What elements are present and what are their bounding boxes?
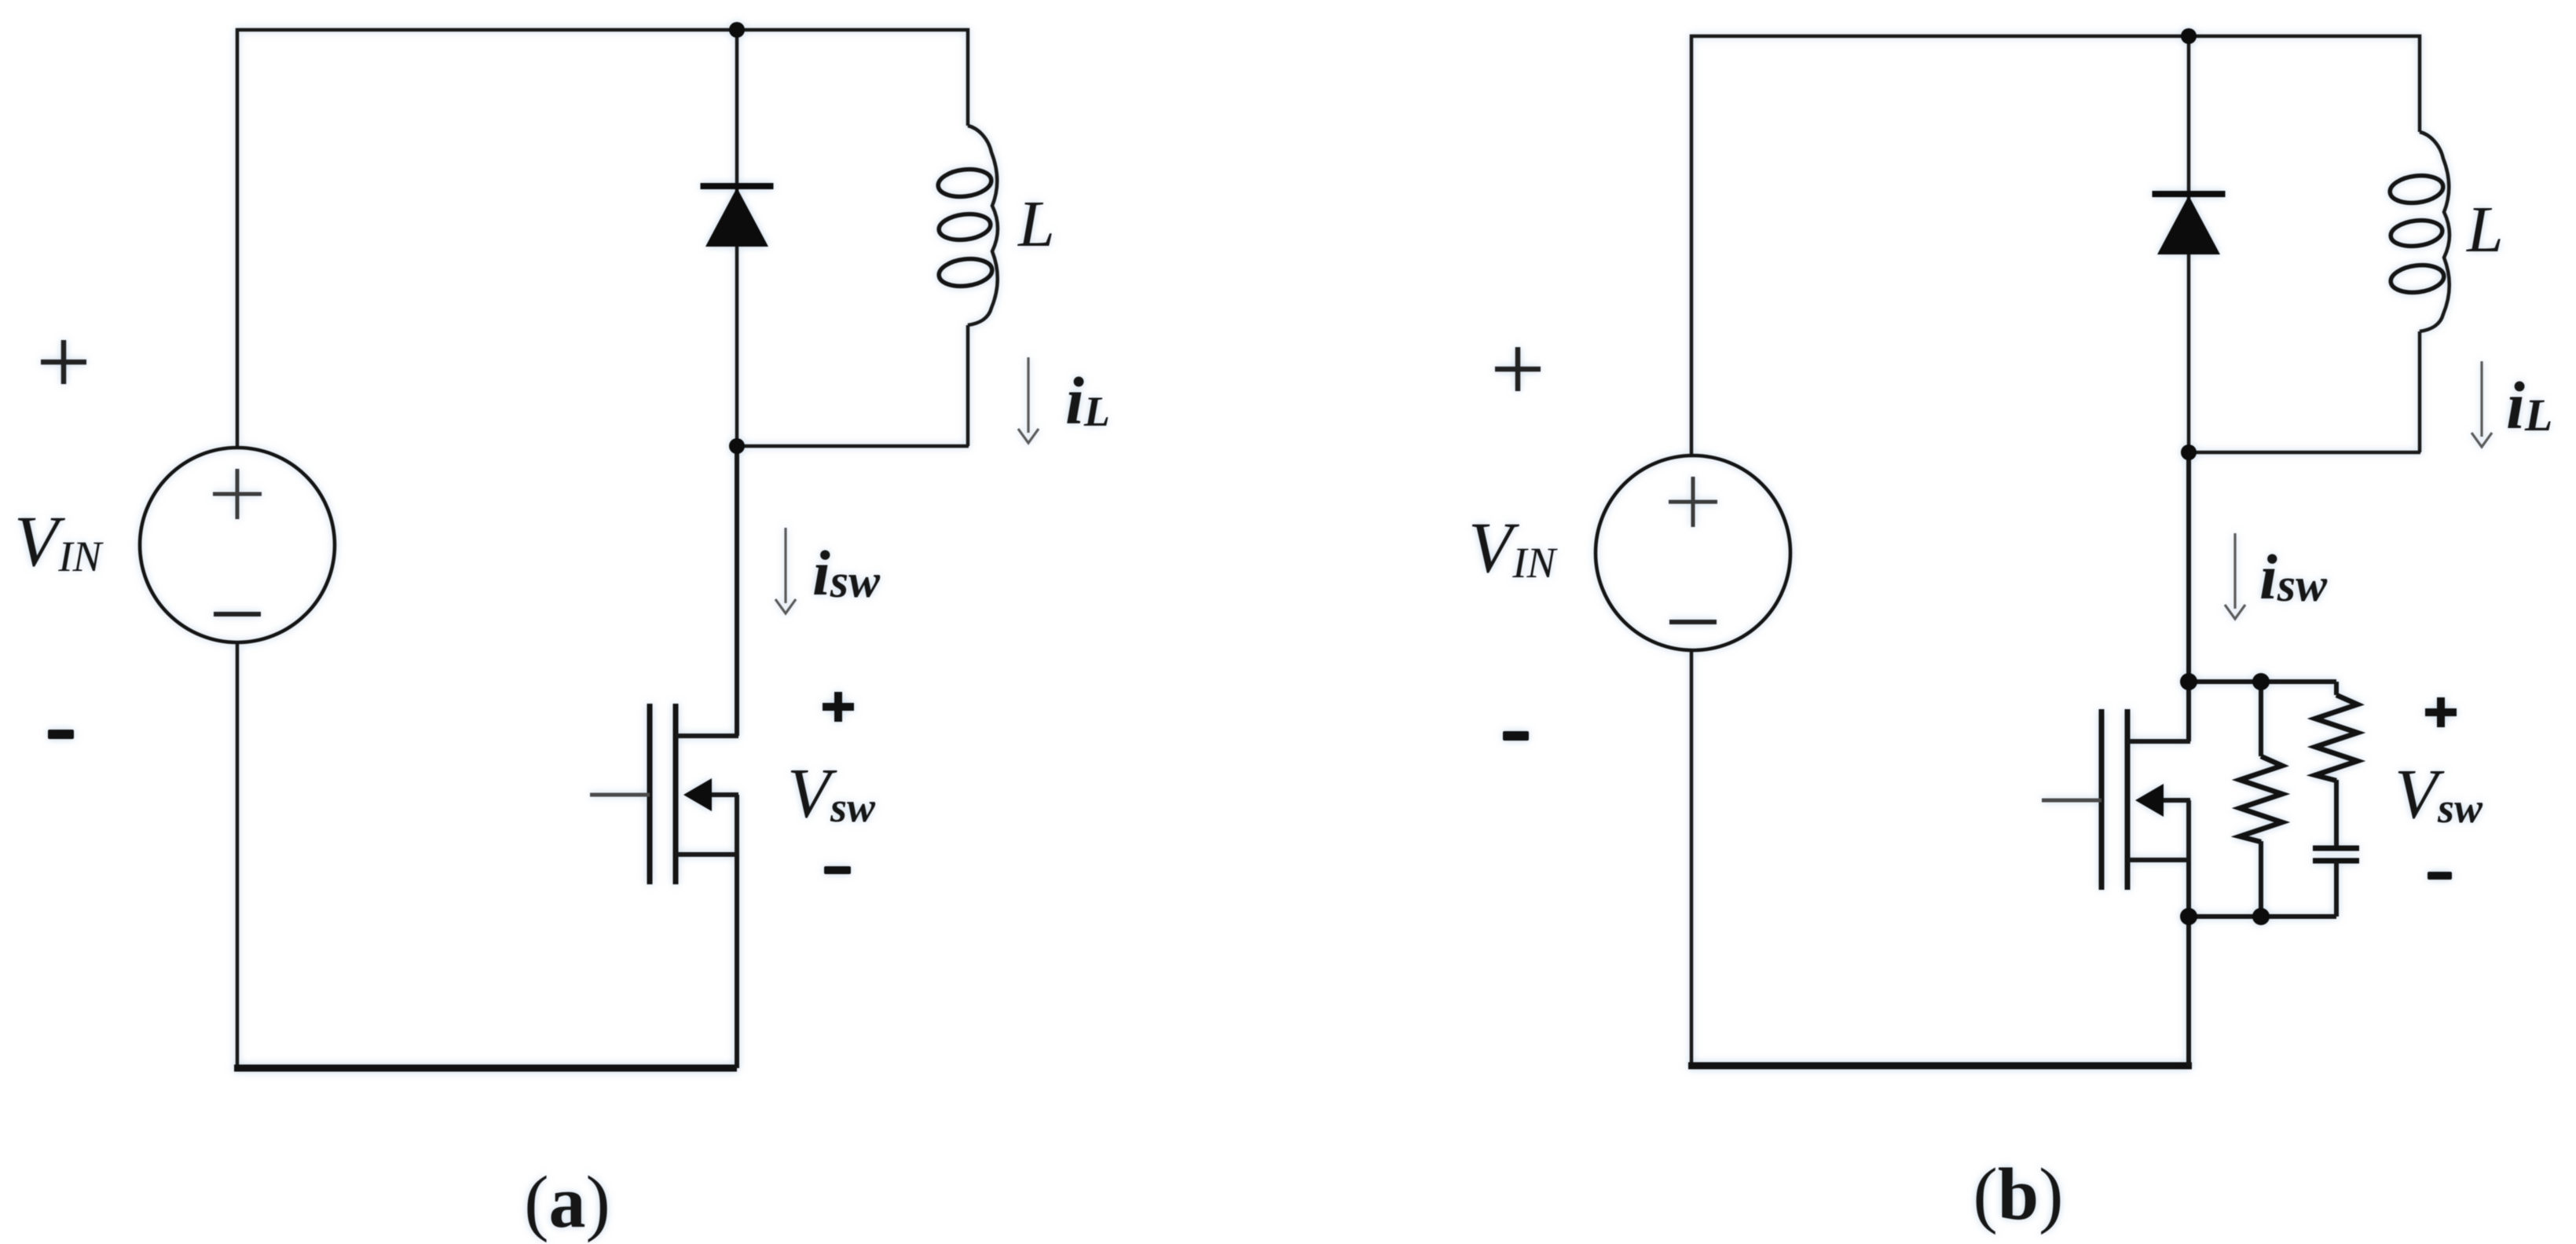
svg-text:(a): (a) <box>524 1162 610 1243</box>
svg-text:L: L <box>2466 193 2504 266</box>
svg-text:L: L <box>1017 188 1055 261</box>
svg-text:isw: isw <box>812 537 881 609</box>
svg-text:VIN: VIN <box>14 501 104 581</box>
svg-text:iL: iL <box>1065 363 1110 438</box>
svg-text:isw: isw <box>2259 541 2328 613</box>
svg-text:Vsw: Vsw <box>787 755 876 832</box>
svg-text:(b): (b) <box>1973 1154 2064 1235</box>
svg-text:Vsw: Vsw <box>2395 756 2483 833</box>
svg-text:VIN: VIN <box>1468 507 1559 587</box>
svg-text:iL: iL <box>2506 368 2552 443</box>
